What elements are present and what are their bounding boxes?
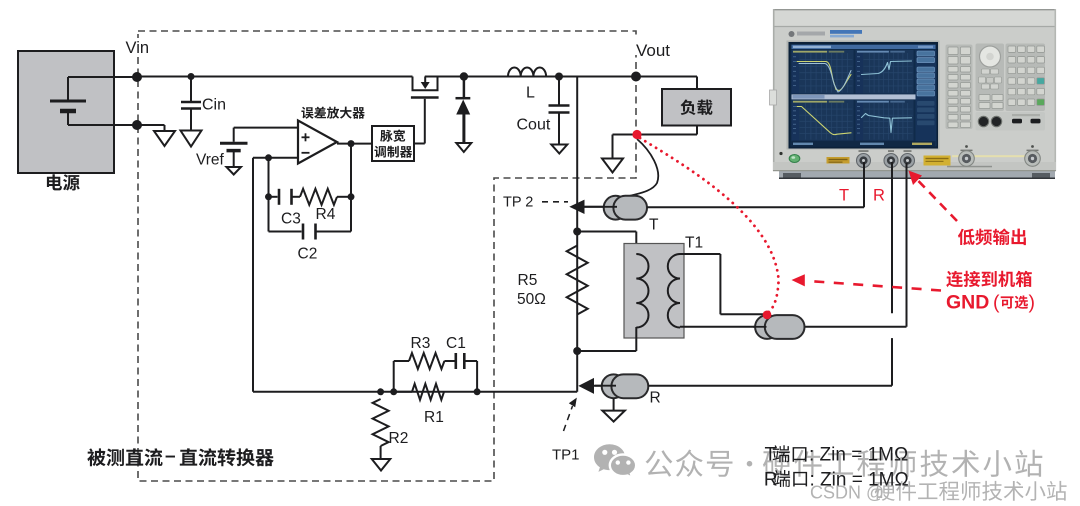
svg-text:TP 2: TP 2 (503, 195, 533, 211)
svg-text:GND: GND (946, 292, 989, 314)
svg-text:T: T (649, 217, 659, 234)
svg-text:R4: R4 (316, 206, 336, 223)
svg-text:R1: R1 (424, 409, 444, 426)
svg-text:: Zin = 1MΩ: : Zin = 1MΩ (809, 445, 908, 466)
svg-text:L: L (526, 85, 535, 102)
svg-text:50Ω: 50Ω (517, 291, 546, 308)
svg-text:R: R (650, 390, 661, 407)
svg-text:Vref: Vref (196, 152, 225, 169)
svg-text:R3: R3 (411, 335, 431, 352)
svg-text:R5: R5 (518, 272, 538, 289)
svg-text:Vin: Vin (126, 39, 150, 57)
svg-text:(: ( (993, 292, 1000, 314)
svg-text:C2: C2 (298, 246, 318, 263)
svg-text:R: R (873, 187, 885, 205)
svg-text:): ) (1029, 292, 1036, 314)
svg-text:Cout: Cout (517, 117, 551, 134)
svg-text:Cin: Cin (202, 97, 226, 114)
svg-text:T1: T1 (685, 235, 703, 252)
svg-text:Vout: Vout (636, 41, 670, 60)
svg-text:TP1: TP1 (552, 447, 580, 464)
svg-text:C1: C1 (446, 335, 466, 352)
svg-text:: Zin = 1MΩ: : Zin = 1MΩ (810, 470, 909, 491)
svg-text:R2: R2 (389, 430, 409, 447)
svg-text:T: T (839, 187, 849, 205)
svg-text:C3: C3 (281, 211, 301, 228)
svg-text:–: – (165, 446, 176, 467)
